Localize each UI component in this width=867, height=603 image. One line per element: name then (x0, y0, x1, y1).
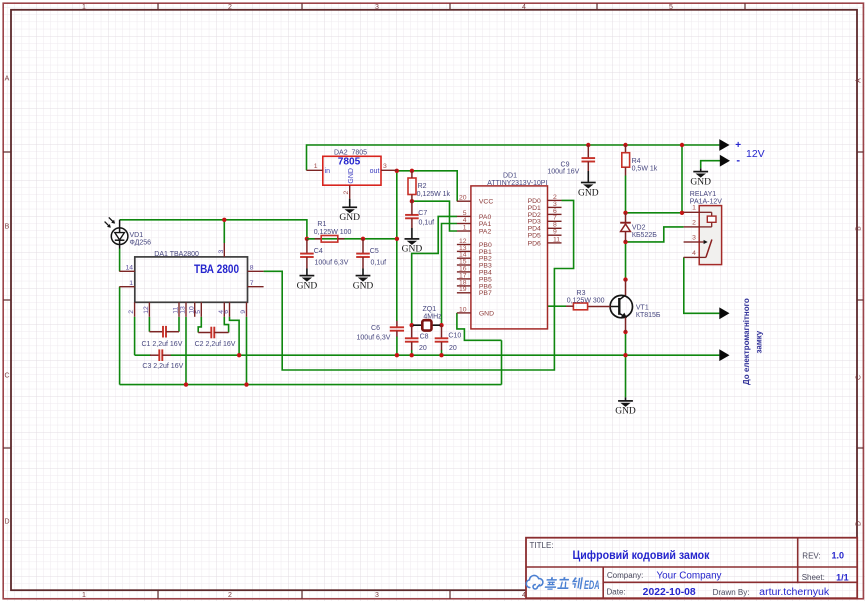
resistor R4 (622, 145, 630, 176)
DD1 pin 14 PB2 (457, 252, 492, 263)
svg-text:9: 9 (553, 229, 557, 236)
svg-text:7: 7 (553, 215, 557, 222)
wire DD1 PA0 to crystal left (412, 216, 457, 325)
wire 7805 out to DD1 VCC (397, 171, 457, 201)
capacitor C4 (300, 239, 314, 269)
svg-text:out: out (370, 168, 380, 175)
svg-text:EDA: EDA (584, 578, 600, 592)
svg-text:VD1: VD1 (130, 232, 144, 239)
ground symbol C4 (297, 269, 318, 292)
TBA pin 1 (119, 280, 135, 287)
svg-text:PA1: PA1 (479, 221, 492, 228)
svg-text:PD1: PD1 (528, 205, 541, 212)
svg-text:КБ522Б: КБ522Б (632, 232, 657, 239)
wire TBA pin12 to C1 (148, 317, 150, 332)
frame row labels right (856, 78, 863, 526)
DD1 pin 6 PD2 (528, 208, 562, 219)
svg-text:R4: R4 (632, 158, 641, 165)
wire VT1 emitter to GND (625, 332, 627, 397)
svg-text:3: 3 (383, 163, 387, 170)
ground symbol -12V (690, 168, 711, 187)
svg-text:C4: C4 (314, 248, 323, 255)
wire ground rail C3 to lock arrow (171, 354, 720, 356)
DD1 pin 16 PB4 (457, 265, 492, 276)
regulator DA2 7805 body (323, 156, 381, 185)
relay pin 4 (684, 250, 700, 258)
wire VD2 anode to relay pin2 (626, 227, 684, 242)
TBA pin 2 bottom (128, 302, 135, 317)
svg-text:12: 12 (143, 306, 150, 314)
svg-text:3: 3 (375, 592, 379, 599)
R2 top lead (411, 171, 413, 178)
relay pin 3 (684, 235, 700, 243)
lock arrow lower (719, 349, 729, 361)
wire TBA pin9 to ground bus (246, 317, 248, 385)
capacitor C9 (582, 145, 596, 171)
frame row ticks left (3, 152, 11, 448)
lock arrow upper (719, 307, 729, 319)
DD1 pin 7 PD3 (528, 215, 562, 226)
wire TBA pin4 to C2 (224, 317, 228, 333)
capacitor C8 (405, 325, 419, 350)
wire C8 bottom (411, 350, 413, 355)
DD1 pin 5 PA0 (457, 210, 492, 221)
TBA pin 11 bottom (173, 302, 180, 317)
wire DD1 PA2 to R2 C7 node (412, 201, 457, 231)
svg-text:DD1: DD1 (503, 173, 517, 180)
svg-text:2: 2 (228, 4, 232, 11)
svg-text:11: 11 (553, 236, 560, 243)
wire +12V drop to relay pin1 (681, 145, 683, 213)
wire TBA pin5 to C2 (198, 317, 201, 333)
wire VD1 bus to C4 node (120, 220, 307, 239)
svg-text:GND: GND (578, 188, 599, 198)
svg-text:Drawn By:: Drawn By: (713, 588, 750, 597)
svg-text:DA2 7805: DA2 7805 (334, 149, 367, 156)
capacitor C1 (149, 326, 179, 338)
svg-text:PB4: PB4 (479, 269, 492, 276)
+12V arrow (719, 139, 729, 151)
transistor VT1 (588, 280, 633, 332)
wire TBA pin13 to ground bus (185, 317, 187, 385)
svg-text:12V: 12V (746, 148, 765, 160)
svg-text:100uf 16V: 100uf 16V (547, 169, 579, 176)
DD1 pin 11 PD6 (528, 236, 562, 247)
svg-text:TITLE:: TITLE: (530, 541, 554, 550)
svg-text:GND: GND (348, 168, 355, 184)
svg-text:17: 17 (459, 272, 467, 279)
svg-text:1: 1 (692, 205, 696, 212)
diode VD2 (620, 213, 631, 242)
svg-text:До електромагнітного: До електромагнітного (742, 298, 751, 385)
TBA pin 13 bottom (180, 302, 187, 317)
wire TBA pin11 to C1 (178, 317, 180, 332)
svg-text:4: 4 (522, 4, 526, 11)
wire DD1 PA1 to crystal right (442, 224, 458, 326)
svg-text:16: 16 (459, 265, 467, 272)
svg-text:C5: C5 (370, 248, 379, 255)
svg-text:10: 10 (459, 306, 467, 313)
svg-text:20: 20 (459, 195, 467, 202)
svg-text:GND: GND (690, 177, 711, 187)
frame column labels top (82, 4, 673, 11)
wire TBA pin3 riser (223, 220, 225, 243)
7805 pin 3 (381, 169, 397, 171)
svg-text:100uf 6,3V: 100uf 6,3V (357, 334, 391, 341)
svg-text:7: 7 (250, 280, 254, 287)
svg-text:0,1uf: 0,1uf (371, 259, 387, 266)
svg-text:in: in (325, 168, 331, 175)
DD1 pin 4 PA1 (457, 217, 492, 228)
resistor R3 (573, 303, 587, 310)
frame column ticks top (158, 3, 745, 10)
DD1 pin 19 PB7 (457, 286, 492, 297)
svg-text:C2 2,2uf 16V: C2 2,2uf 16V (195, 341, 236, 348)
svg-text:4: 4 (463, 217, 467, 224)
wire R3 left (554, 305, 566, 307)
svg-text:R3: R3 (577, 290, 586, 297)
svg-text:C6: C6 (371, 325, 380, 332)
DD1 pin 9 PD5 (528, 229, 562, 240)
svg-text:19: 19 (459, 286, 467, 293)
ic DA1 TBA2800 body (135, 257, 248, 302)
svg-text:2: 2 (343, 191, 350, 195)
svg-text:R1: R1 (317, 221, 326, 228)
svg-text:-: - (736, 155, 740, 167)
relay RELAY1 body (699, 206, 721, 265)
svg-text:PA1A-12V: PA1A-12V (690, 199, 722, 206)
svg-text:1/1: 1/1 (836, 572, 849, 582)
svg-text:PD0: PD0 (528, 198, 541, 205)
svg-text:1: 1 (314, 163, 318, 170)
logo EasyEDA cloud (526, 575, 543, 589)
wire bottom ground bus (120, 384, 502, 386)
svg-text:VCC: VCC (479, 199, 493, 206)
svg-text:100uf 6,3V: 100uf 6,3V (315, 259, 349, 266)
svg-text:C: C (856, 375, 863, 380)
logo text JLC (544, 577, 582, 590)
R3 left lead (566, 305, 573, 307)
DD1 pin 15 PB3 (457, 258, 492, 269)
svg-text:0,1uf: 0,1uf (419, 219, 435, 226)
relay coil (699, 212, 716, 227)
DD1 pin 17 PB5 (457, 272, 492, 283)
TBA pin 7 (248, 280, 264, 287)
svg-text:GND: GND (339, 213, 360, 223)
svg-text:artur.tchernyuk: artur.tchernyuk (759, 587, 830, 598)
svg-text:GND: GND (297, 281, 318, 291)
svg-text:13: 13 (180, 306, 187, 314)
DD1 pin 10 GND (457, 306, 494, 317)
wire DD1 GND pin route (457, 313, 502, 340)
svg-text:C3 2,2uf 16V: C3 2,2uf 16V (142, 363, 183, 370)
svg-text:Sheet:: Sheet: (802, 573, 825, 582)
svg-text:R2: R2 (418, 183, 427, 190)
svg-text:1: 1 (463, 224, 467, 231)
DD1 pin 13 PB1 (457, 245, 492, 256)
svg-text:GND: GND (353, 281, 374, 291)
wire VD2 node to relay pin1 (626, 212, 684, 214)
svg-text:3: 3 (375, 4, 379, 11)
svg-text:PB7: PB7 (479, 290, 492, 297)
frame row ticks right (857, 152, 863, 448)
svg-text:C: C (4, 373, 9, 380)
svg-text:1.0: 1.0 (832, 551, 845, 561)
svg-text:замку: замку (755, 330, 764, 353)
wire TBA pin2 down (134, 317, 136, 355)
wire VD1 cathode to TBA pin14 (119, 249, 121, 272)
svg-text:2: 2 (553, 194, 557, 201)
wire relay pin4 to lock arrow (684, 257, 720, 313)
capacitor C2 (198, 327, 228, 339)
svg-text:4MHz: 4MHz (423, 313, 442, 320)
relay pin 1 (684, 205, 700, 213)
svg-text:B: B (856, 226, 863, 231)
DD1 pin 1 PA2 (457, 224, 492, 235)
svg-text:C10: C10 (448, 332, 461, 339)
svg-text:5: 5 (463, 210, 467, 217)
svg-text:0,125W 1k: 0,125W 1k (417, 191, 451, 198)
svg-text:PB5: PB5 (479, 276, 492, 283)
photodiode VD1 (105, 217, 128, 248)
TBA pin 9 bottom (240, 302, 247, 317)
TBA pin 14 (119, 265, 135, 272)
svg-text:КТ815Б: КТ815Б (636, 312, 661, 319)
wire C10 bottom (441, 350, 443, 355)
svg-text:Цифровий кодовий замок: Цифровий кодовий замок (573, 550, 710, 562)
ground symbol 7805 (339, 199, 360, 223)
svg-text:REV:: REV: (802, 552, 820, 561)
svg-text:4: 4 (692, 250, 696, 257)
svg-text:5: 5 (669, 4, 673, 11)
frame column ticks bottom (158, 590, 745, 599)
svg-text:3: 3 (692, 235, 696, 242)
frame row labels left (4, 76, 9, 526)
ground symbol C5 (353, 269, 374, 292)
svg-text:PD3: PD3 (528, 219, 541, 226)
frame column labels bottom (82, 592, 673, 599)
svg-text:Your Company: Your Company (657, 571, 722, 582)
svg-text:3: 3 (553, 201, 557, 208)
svg-text:GND: GND (479, 310, 494, 317)
svg-text:PD5: PD5 (528, 233, 541, 240)
svg-text:RELAY1: RELAY1 (690, 191, 716, 198)
svg-text:9: 9 (240, 310, 247, 314)
svg-text:8: 8 (250, 265, 254, 272)
svg-text:Date:: Date: (607, 588, 626, 597)
svg-text:1: 1 (129, 280, 133, 287)
wire DD1 PD0 loop to R3 node (554, 200, 573, 306)
svg-text:DA1 TBA2800: DA1 TBA2800 (154, 251, 199, 258)
svg-text:ZQ1: ZQ1 (422, 306, 436, 313)
svg-text:0,5W 1k: 0,5W 1k (632, 165, 658, 172)
svg-text:Company:: Company: (607, 571, 643, 580)
svg-text:A: A (856, 78, 863, 83)
wire ground bus jog up to ground rail (501, 340, 503, 384)
DD1 pin 2 PD0 (528, 194, 562, 205)
svg-text:VD2: VD2 (632, 225, 646, 232)
svg-text:14: 14 (125, 265, 133, 272)
wire C6 bottom to ground rail (396, 336, 398, 355)
wire R1 C4 C5 +5V rail (307, 238, 397, 240)
svg-text:5: 5 (195, 310, 202, 314)
DD1 pin 3 PD1 (528, 201, 562, 212)
7805 pin 1 (306, 169, 322, 171)
7805 pin 2 (349, 185, 351, 199)
svg-text:ТВА 2800: ТВА 2800 (194, 264, 239, 276)
svg-text:2: 2 (692, 219, 696, 226)
wire TBA pin1 to ground bus (119, 287, 121, 385)
svg-text:2: 2 (128, 310, 135, 314)
ground symbol C7 (402, 228, 423, 255)
wire TBA pin6 to ground rail (230, 317, 240, 355)
svg-text:GND: GND (402, 245, 423, 255)
TBA pin 8 (248, 265, 264, 272)
TBA pin 4 bottom (218, 302, 225, 317)
svg-text:1: 1 (82, 4, 86, 11)
svg-text:D: D (4, 519, 9, 526)
DD1 pin 12 PB0 (457, 238, 492, 249)
capacitor C3 (150, 349, 171, 361)
crystal ZQ1 (413, 320, 440, 330)
TBA pin 12 bottom (143, 302, 150, 317)
title block border (526, 538, 857, 599)
svg-text:2022-10-08: 2022-10-08 (643, 587, 696, 598)
svg-text:+: + (735, 140, 741, 151)
svg-text:GND: GND (615, 407, 636, 417)
wire VD2 anode to VT1 collector (625, 242, 627, 280)
svg-text:2: 2 (228, 592, 232, 599)
wire R4 bottom to VD2 node (625, 176, 627, 213)
svg-text:7805: 7805 (338, 157, 361, 168)
svg-text:D: D (856, 521, 863, 526)
wire +5V vertical to R1 rail and C6 (396, 171, 398, 321)
TBA pin 6 bottom (223, 302, 230, 317)
svg-text:VT1: VT1 (636, 305, 649, 312)
svg-text:C8: C8 (420, 334, 429, 341)
capacitor C7 (405, 201, 419, 228)
capacitor C5 (356, 239, 370, 269)
TBA pin 3 top (218, 243, 225, 257)
ground symbol C9 (578, 171, 599, 198)
wire -12V arrow to GND (701, 161, 722, 169)
relay pin 2 (684, 219, 700, 227)
svg-text:3: 3 (218, 250, 225, 254)
svg-text:20: 20 (419, 345, 427, 352)
capacitor C10 (435, 325, 449, 350)
svg-text:PA0: PA0 (479, 214, 492, 221)
svg-text:C7: C7 (418, 210, 427, 217)
junction dots (184, 143, 684, 387)
svg-text:0,125W 300: 0,125W 300 (567, 297, 605, 304)
svg-text:A: A (5, 76, 10, 83)
resistor R1 (307, 236, 345, 243)
mcu DD1 body (471, 186, 548, 329)
wire +12V top bus (307, 145, 720, 170)
svg-text:ATTINY2313V-10PI: ATTINY2313V-10PI (487, 180, 547, 187)
svg-text:20: 20 (449, 345, 457, 352)
svg-text:PA2: PA2 (479, 228, 492, 235)
capacitor C6 (390, 321, 404, 337)
svg-text:11: 11 (173, 307, 180, 314)
svg-text:B: B (5, 224, 10, 231)
wire ground rail left of C3 (135, 354, 151, 356)
DD1 pin 18 PB6 (457, 279, 492, 290)
resistor R2 (408, 178, 416, 195)
TBA pin 10 bottom (188, 302, 195, 317)
relay switch (699, 240, 712, 258)
svg-text:C1 2,2uf 16V: C1 2,2uf 16V (142, 341, 183, 348)
-12V arrow (720, 155, 730, 167)
svg-text:PD6: PD6 (528, 240, 541, 247)
DD1 pin 8 PD4 (528, 222, 562, 233)
TBA pin 5 bottom (195, 302, 202, 317)
wire TBA pin8 to R3 node (264, 271, 555, 370)
R2 bottom lead (411, 195, 413, 202)
svg-text:0,125W 100: 0,125W 100 (314, 229, 352, 236)
svg-text:1: 1 (82, 592, 86, 599)
DD1 pin 20 VCC (457, 195, 493, 206)
svg-text:C9: C9 (561, 161, 570, 168)
ground symbol VT1 (615, 397, 636, 416)
svg-text:6: 6 (223, 310, 230, 314)
svg-text:ФД256: ФД256 (130, 240, 152, 247)
